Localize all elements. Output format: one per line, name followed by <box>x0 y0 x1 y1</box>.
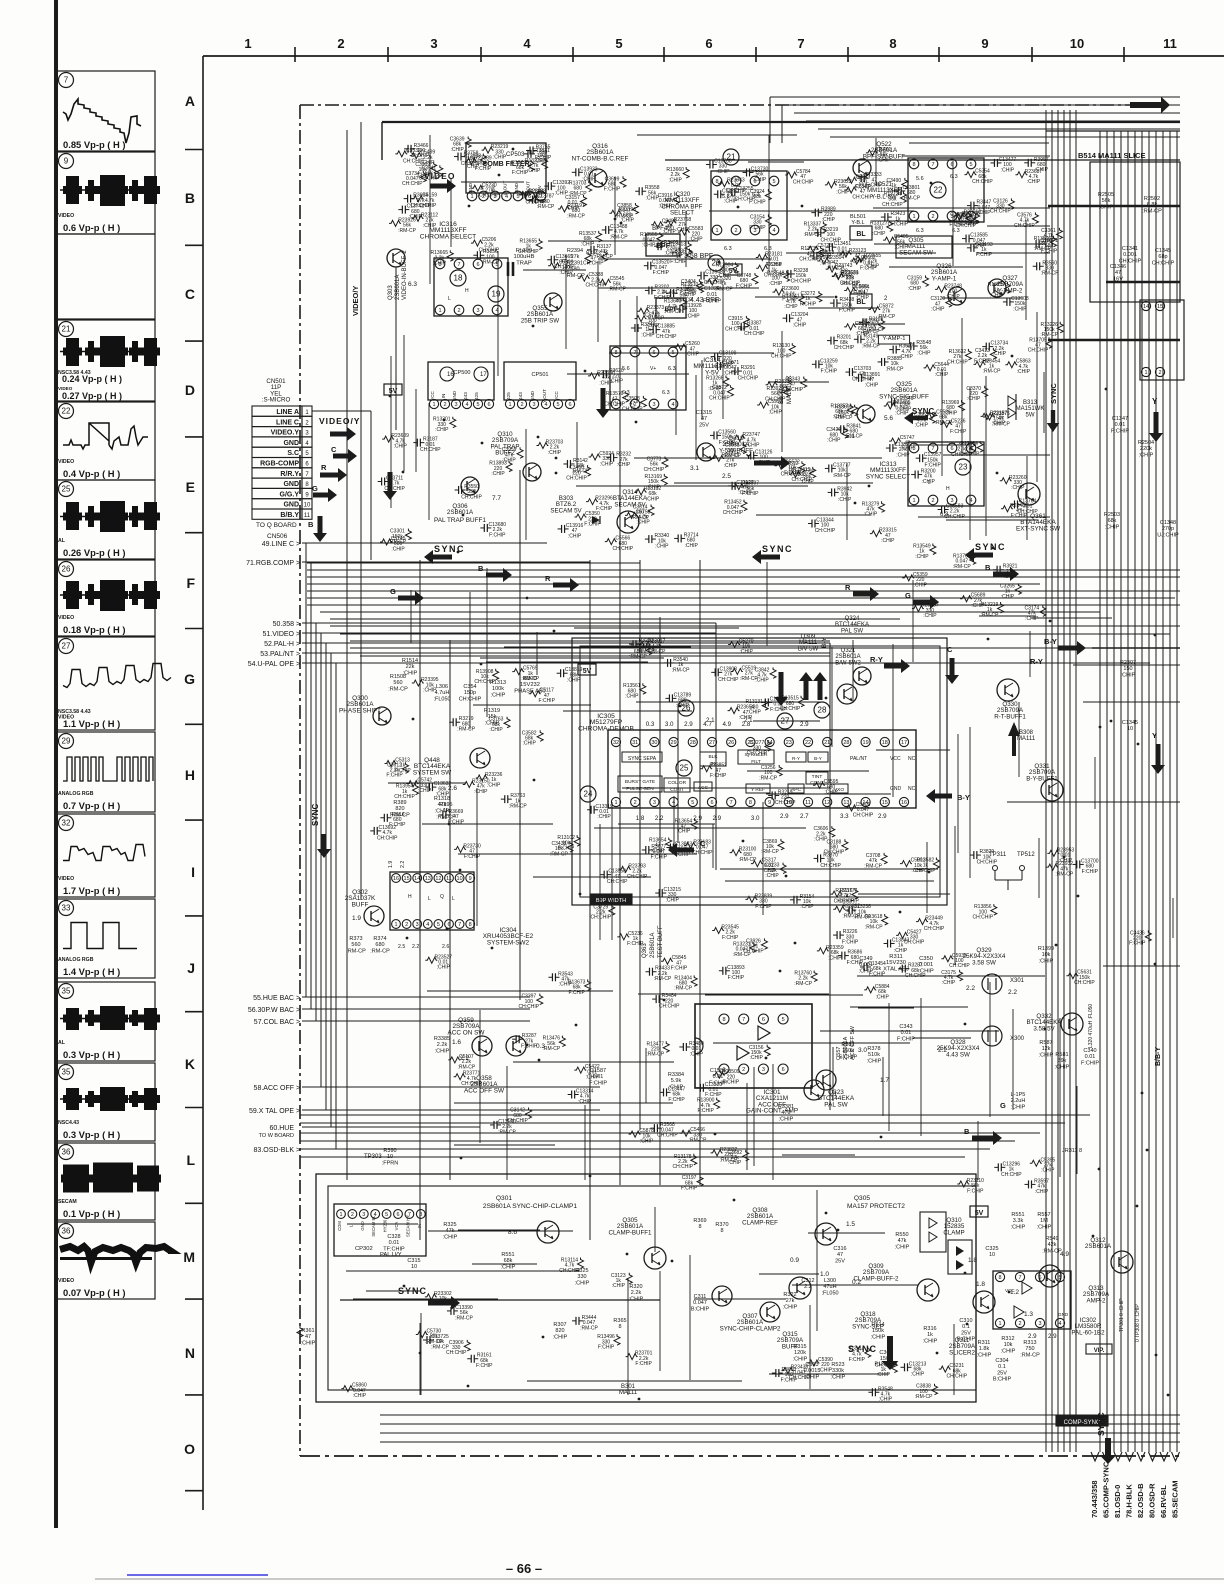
svg-text::CHIP: :CHIP <box>765 873 779 879</box>
svg-text::CHIP: :CHIP <box>757 460 771 466</box>
svg-text:3: 3 <box>430 36 437 51</box>
svg-text::CHIP: :CHIP <box>686 352 700 358</box>
svg-text:CLAMP-REF: CLAMP-REF <box>742 1219 778 1226</box>
svg-text:3: 3 <box>1038 1321 1041 1327</box>
dash-dot board border top <box>300 104 1164 106</box>
svg-text:Q303: Q303 <box>388 285 394 300</box>
svg-text:CH:CHIP: CH:CHIP <box>977 859 998 865</box>
svg-text:1.8k: 1.8k <box>979 1346 990 1352</box>
svg-text:10: 10 <box>411 1264 417 1270</box>
svg-text::CHIP: :CHIP <box>1041 1168 1055 1174</box>
svg-text:32: 32 <box>62 819 71 828</box>
svg-text:7: 7 <box>457 262 460 268</box>
svg-text:3: 3 <box>454 402 457 408</box>
svg-text::CHIP: :CHIP <box>1037 1224 1052 1230</box>
svg-text:0.18 Vp-p ( H ): 0.18 Vp-p ( H ) <box>63 624 126 635</box>
svg-text:CH:CHIP: CH:CHIP <box>1074 980 1095 986</box>
svg-text:R313: R313 <box>1023 1340 1036 1346</box>
svg-text::RM-CP: :RM-CP <box>827 265 845 271</box>
svg-text:RGB-COMP: RGB-COMP <box>260 461 299 468</box>
svg-text:BURST GATE: BURST GATE <box>625 779 655 785</box>
svg-text:BUFF: BUFF <box>352 901 369 908</box>
svg-text:GND: GND <box>890 786 902 792</box>
svg-text::CHIP: :CHIP <box>553 1334 568 1340</box>
svg-text:5.6: 5.6 <box>916 176 924 182</box>
svg-text:22: 22 <box>805 740 811 746</box>
svg-text:CH:CHIP: CH:CHIP <box>384 486 405 492</box>
svg-text:CH:CHIP: CH:CHIP <box>972 179 993 185</box>
svg-text:4.9: 4.9 <box>1060 1251 1069 1258</box>
svg-text::CHIP: :CHIP <box>865 382 879 388</box>
svg-text:8: 8 <box>998 1275 1001 1281</box>
svg-text:Y: Y <box>1152 397 1158 406</box>
svg-text:L: L <box>448 296 451 302</box>
svg-text:MA157 PROTECT2: MA157 PROTECT2 <box>847 1203 905 1210</box>
svg-text:CH:CHIP: CH:CHIP <box>718 677 739 683</box>
svg-text:SECAM 5V: SECAM 5V <box>550 507 582 514</box>
svg-text:F: F <box>186 575 195 591</box>
svg-text::CHIP: :CHIP <box>944 410 958 416</box>
svg-text:0.1 Vp-p ( H ): 0.1 Vp-p ( H ) <box>63 1208 120 1219</box>
svg-text:SYNC SELECT: SYNC SELECT <box>866 473 910 480</box>
svg-text::CHIP: :CHIP <box>784 304 798 310</box>
svg-text::CHIP: :CHIP <box>683 292 697 298</box>
svg-text:Y-B.L: Y-B.L <box>851 220 864 226</box>
svg-text:CP503: CP503 <box>506 152 525 158</box>
svg-text:CH:CHIP: CH:CHIP <box>764 273 785 279</box>
svg-text:443: 443 <box>463 392 468 400</box>
svg-text:C1315: C1315 <box>696 410 712 416</box>
svg-text:MA111: MA111 <box>1017 736 1036 742</box>
svg-text:Y-OUT: Y-OUT <box>542 389 547 403</box>
circled 20 <box>708 255 724 271</box>
svg-text:29: 29 <box>62 737 71 746</box>
svg-text:O: O <box>184 1441 195 1457</box>
svg-text::RM-CP: :RM-CP <box>370 948 390 954</box>
svg-text:12: 12 <box>435 876 441 882</box>
svg-text:5: 5 <box>969 162 972 168</box>
svg-text:R316: R316 <box>923 1326 936 1332</box>
svg-text:CH:CHIP: CH:CHIP <box>820 863 841 869</box>
svg-text:GND: GND <box>283 440 299 447</box>
svg-text:B/V 5W: B/V 5W <box>798 646 819 652</box>
svg-text:2: 2 <box>931 498 934 504</box>
svg-text:5W: 5W <box>1026 412 1035 418</box>
svg-text:2.2: 2.2 <box>966 985 975 992</box>
svg-text:R2503: R2503 <box>1104 512 1120 518</box>
svg-text:31: 31 <box>632 740 638 746</box>
svg-text:CH:CHIP: CH:CHIP <box>725 326 746 332</box>
svg-text::CHIP: :CHIP <box>876 994 890 1000</box>
svg-text::CHIP: :CHIP <box>718 273 732 279</box>
svg-text:220k: 220k <box>1140 446 1152 452</box>
svg-text:C: C <box>185 286 195 302</box>
top right horizontal bundle <box>770 96 1180 98</box>
svg-text:CH:CHIP: CH:CHIP <box>657 1133 678 1139</box>
svg-text:1.6: 1.6 <box>452 1039 461 1046</box>
waveform box 35 0.3 Vp-p ( H ) <box>57 1063 155 1141</box>
svg-text:6: 6 <box>762 1017 765 1023</box>
svg-text:F:CHIP: F:CHIP <box>1082 869 1099 875</box>
svg-text::CHIP: :CHIP <box>1001 167 1015 173</box>
svg-text::RM-CP: :RM-CP <box>654 976 672 982</box>
svg-text:7: 7 <box>1018 1275 1021 1281</box>
svg-text::CHIP: :CHIP <box>393 443 407 449</box>
svg-text:1.7 Vp-p ( H ): 1.7 Vp-p ( H ) <box>63 885 120 896</box>
svg-text:R-Y: R-Y <box>792 756 800 761</box>
svg-text:C343: C343 <box>899 1024 912 1030</box>
svg-text:X300: X300 <box>1010 1036 1025 1042</box>
svg-text:CH:CHIP: CH:CHIP <box>519 1004 540 1010</box>
svg-text:11: 11 <box>446 876 452 882</box>
svg-text::RM-CP: :RM-CP <box>509 804 527 810</box>
page left margin bar <box>54 0 58 1528</box>
svg-text:CH:CHIP: CH:CHIP <box>973 914 994 920</box>
svg-text:SYNC-CHIP-CLAMP2: SYNC-CHIP-CLAMP2 <box>720 1325 781 1332</box>
svg-text:TRAP: TRAP <box>516 260 532 266</box>
svg-text:VCC: VCC <box>430 390 435 400</box>
svg-text:NT-COMB-B.C.REF: NT-COMB-B.C.REF <box>572 155 629 162</box>
svg-text::RM-CP: :RM-CP <box>992 421 1010 427</box>
svg-text:0.1: 0.1 <box>962 1324 970 1330</box>
svg-text::CHIP: :CHIP <box>646 196 660 202</box>
svg-text:2.2: 2.2 <box>1008 989 1017 996</box>
svg-text:R320: R320 <box>629 1284 642 1290</box>
label B9P WIDTH boxed <box>590 894 632 904</box>
left vertical bus bundle <box>305 543 307 997</box>
xtal X301 <box>982 974 1002 994</box>
svg-text:2.9: 2.9 <box>878 813 887 820</box>
svg-text:H: H <box>465 288 469 294</box>
svg-text:R3385: R3385 <box>434 1036 450 1042</box>
svg-text:10: 10 <box>1127 726 1133 732</box>
svg-text:25V: 25V <box>699 422 709 428</box>
svg-text:F:CHIP: F:CHIP <box>651 854 668 860</box>
chroma section outer frame <box>572 638 947 905</box>
svg-text:L: L <box>186 1152 195 1168</box>
svg-text:CH:CHIP: CH:CHIP <box>888 221 909 227</box>
svg-text:R2502: R2502 <box>1144 196 1160 202</box>
svg-text:F:CHIP: F:CHIP <box>924 463 941 469</box>
svg-text:SYNC: SYNC <box>434 544 465 554</box>
svg-text:2.2k: 2.2k <box>437 1042 448 1048</box>
svg-text::CHIP: :CHIP <box>418 788 432 794</box>
svg-text:16: 16 <box>393 876 399 882</box>
svg-text:TP301 0 :CHIP: TP301 0 :CHIP <box>1119 1298 1125 1332</box>
svg-text::RM-CP: :RM-CP <box>672 667 690 673</box>
wire B down arrow <box>313 516 327 542</box>
waveform box 33 1.4 Vp-p ( H ) <box>57 899 155 978</box>
svg-text:B: B <box>185 190 195 206</box>
svg-text::CHIP: :CHIP <box>824 790 838 796</box>
circled 28 <box>814 702 830 718</box>
xtal X300 <box>982 1026 1002 1046</box>
svg-text::CHIP: :CHIP <box>838 497 852 503</box>
svg-text:21: 21 <box>824 740 830 746</box>
svg-text::CHIP: :CHIP <box>642 243 656 249</box>
svg-text:5: 5 <box>556 402 559 408</box>
svg-text:C315: C315 <box>407 1258 420 1264</box>
svg-text:>: > <box>296 541 300 548</box>
svg-text:C312: C312 <box>801 1278 814 1284</box>
svg-text:47: 47 <box>1115 270 1121 276</box>
svg-text:6: 6 <box>705 36 712 51</box>
svg-text:9: 9 <box>469 876 472 882</box>
svg-text:TP512: TP512 <box>1017 852 1035 858</box>
svg-text:28: 28 <box>818 706 827 715</box>
svg-text::CHIP: :CHIP <box>534 158 548 164</box>
svg-text:7: 7 <box>742 1017 745 1023</box>
top band frame verticals <box>769 97 771 143</box>
svg-text:56k: 56k <box>1102 198 1111 204</box>
svg-text:F:CHIP: F:CHIP <box>1041 248 1058 254</box>
svg-text:1: 1 <box>394 922 397 928</box>
svg-text:2: 2 <box>520 402 523 408</box>
svg-text:2.2: 2.2 <box>400 861 406 868</box>
svg-text:NC: NC <box>908 786 916 792</box>
svg-text:C316: C316 <box>833 1246 846 1252</box>
svg-text::FL050: :FL050 <box>433 696 450 702</box>
svg-text:G: G <box>184 671 195 687</box>
svg-text:C350: C350 <box>919 956 933 962</box>
transistor Q557 ACC OFF 5W <box>816 1070 836 1090</box>
svg-text:SLICER2: SLICER2 <box>949 1349 975 1356</box>
svg-text:80.OSD-R: 80.OSD-R <box>1148 1483 1157 1518</box>
svg-text:GND: GND <box>468 182 473 193</box>
svg-text:4: 4 <box>523 36 531 51</box>
svg-text:10: 10 <box>989 1252 995 1258</box>
svg-text::CHIP: :CHIP <box>914 582 928 588</box>
svg-text:COL OR: COL OR <box>668 780 687 786</box>
svg-text::RM-CP: :RM-CP <box>761 849 779 855</box>
svg-text:0.7 Vp-p ( H ): 0.7 Vp-p ( H ) <box>63 800 120 811</box>
svg-text:1.8: 1.8 <box>968 1257 977 1264</box>
svg-text:R2504: R2504 <box>1138 440 1154 446</box>
svg-text:6.3: 6.3 <box>724 246 732 252</box>
svg-text:CH:CHIP: CH:CHIP <box>853 812 874 818</box>
svg-text:3.0: 3.0 <box>665 721 674 728</box>
svg-text:19: 19 <box>863 740 869 746</box>
svg-text:7: 7 <box>458 922 461 928</box>
svg-text:2: 2 <box>742 1067 745 1073</box>
svg-text:52.PAL-H: 52.PAL-H <box>264 641 294 648</box>
svg-text:750: 750 <box>1025 1346 1034 1352</box>
svg-text:17: 17 <box>901 740 907 746</box>
svg-text::CHIP: :CHIP <box>1139 452 1154 458</box>
column ticks <box>294 47 296 62</box>
svg-text::RM-CP: :RM-CP <box>715 286 733 292</box>
svg-text:0.4 Vp-p ( H ): 0.4 Vp-p ( H ) <box>63 468 120 479</box>
svg-text:R1399: R1399 <box>1038 946 1054 952</box>
svg-text:65.COMP-SYNC: 65.COMP-SYNC <box>1102 1461 1111 1518</box>
svg-text:25V: 25V <box>835 1258 845 1264</box>
svg-text:F:CHIP: F:CHIP <box>489 532 506 538</box>
svg-text::CHIP: :CHIP <box>777 389 791 395</box>
svg-text::RM-CP: :RM-CP <box>794 981 812 987</box>
svg-text:SYSTEM SW: SYSTEM SW <box>413 769 452 776</box>
svg-text:3.3: 3.3 <box>840 813 849 820</box>
svg-text:SECAM HY: SECAM HY <box>405 1215 410 1237</box>
svg-text:CH:CHIP: CH:CHIP <box>526 199 547 205</box>
svg-text:CH:CHIP: CH:CHIP <box>882 202 903 208</box>
svg-text:1: 1 <box>715 228 718 234</box>
svg-text:F:CHIP: F:CHIP <box>1129 941 1146 947</box>
svg-text:CH:CHIP: CH:CHIP <box>743 949 764 955</box>
svg-text::CHIP: :CHIP <box>1013 306 1027 312</box>
svg-text::CHIP: :CHIP <box>575 1280 590 1286</box>
svg-text:Q301: Q301 <box>496 1195 512 1202</box>
svg-text:1.5: 1.5 <box>846 1221 855 1228</box>
svg-text:0.3 Vp-p ( H ): 0.3 Vp-p ( H ) <box>63 1129 120 1140</box>
svg-text:JR311 8: JR311 8 <box>1062 1148 1082 1154</box>
svg-text:CH:CHIP: CH:CHIP <box>1028 348 1049 354</box>
svg-text::CHIP: :CHIP <box>1027 179 1041 185</box>
svg-text:120k: 120k <box>794 1350 806 1356</box>
svg-text:F:CHIP: F:CHIP <box>671 966 688 972</box>
svg-text:28: 28 <box>843 740 849 746</box>
svg-text::CHIP: :CHIP <box>836 189 850 195</box>
svg-text:LINE A: LINE A <box>276 409 299 416</box>
svg-text:1.1 Vp-p ( H ): 1.1 Vp-p ( H ) <box>63 718 120 729</box>
thick right rail 1 <box>1048 205 1180 207</box>
svg-text:V+: V+ <box>650 366 656 372</box>
svg-text::RM-CP: :RM-CP <box>346 948 366 954</box>
svg-text:5: 5 <box>782 1017 785 1023</box>
svg-text:PULSE GEN: PULSE GEN <box>626 786 654 792</box>
svg-text:51.VIDEO: 51.VIDEO <box>262 631 294 638</box>
svg-text:G: G <box>905 591 911 600</box>
svg-text:F:CHIP: F:CHIP <box>842 939 859 945</box>
svg-text::CHIP: :CHIP <box>728 1160 742 1166</box>
svg-text:K: K <box>185 1056 195 1072</box>
waveform box 36 0.1 Vp-p ( H ) <box>57 1143 155 1220</box>
dash-dot board border left <box>299 105 301 1456</box>
svg-text:GND: GND <box>530 390 535 401</box>
svg-text:425: 425 <box>506 392 511 400</box>
ic right edge partial <box>1140 300 1184 380</box>
svg-text:L: L <box>452 896 455 902</box>
svg-text:C1341: C1341 <box>1122 246 1138 252</box>
svg-text::CHIP: :CHIP <box>501 1264 516 1270</box>
svg-text:R-Y: R-Y <box>870 655 883 664</box>
svg-text:0.01: 0.01 <box>389 1240 400 1246</box>
svg-text:0.01: 0.01 <box>707 292 718 298</box>
svg-text:2.9: 2.9 <box>684 721 693 728</box>
svg-text:2.2: 2.2 <box>655 815 664 822</box>
svg-text:5.9k: 5.9k <box>671 1078 682 1084</box>
svg-text:R550: R550 <box>895 1232 908 1238</box>
svg-text:IN: IN <box>417 1224 422 1228</box>
svg-text::CHIP: :CHIP <box>597 814 611 820</box>
svg-text:F:CHIP: F:CHIP <box>742 491 759 497</box>
svg-text:14: 14 <box>1143 304 1149 310</box>
svg-text:R361: R361 <box>301 1328 314 1334</box>
svg-text:66.RV-BL: 66.RV-BL <box>1159 1485 1168 1518</box>
svg-text:CLAMP: CLAMP <box>943 1229 964 1236</box>
svg-text:23: 23 <box>786 740 792 746</box>
svg-text::RM-CP: :RM-CP <box>1020 1352 1040 1358</box>
svg-text:>: > <box>296 1019 300 1026</box>
svg-text:1: 1 <box>912 214 915 220</box>
svg-text:C1346: C1346 <box>1110 264 1126 270</box>
svg-text::CHIP: :CHIP <box>436 792 450 798</box>
comb filter CP503 <box>466 143 546 193</box>
svg-text:G/G.Y: G/G.Y <box>280 491 300 498</box>
svg-text:R370: R370 <box>715 1222 728 1228</box>
svg-text:2.7: 2.7 <box>800 813 809 820</box>
svg-text:50.358: 50.358 <box>273 621 295 628</box>
svg-text:L320 470uH :FL050: L320 470uH :FL050 <box>1088 1004 1094 1048</box>
svg-text::CHIP: :CHIP <box>450 147 464 153</box>
transistor Q306 PAL TRAP BUFF1 <box>461 477 479 495</box>
svg-text:2.6: 2.6 <box>442 944 449 950</box>
svg-text:VIDEO: VIDEO <box>58 213 74 219</box>
svg-text:2.1: 2.1 <box>706 717 715 724</box>
svg-text:560: 560 <box>351 942 360 948</box>
row letter rail <box>202 56 204 1510</box>
svg-text:Q321: Q321 <box>841 648 856 654</box>
svg-text:F:CHIP: F:CHIP <box>670 259 687 265</box>
transistor Q330 R-T-BUFF1 <box>997 679 1019 701</box>
svg-text::CHIP: :CHIP <box>966 220 980 226</box>
svg-text:5V: 5V <box>389 388 398 395</box>
svg-text::CHIP: :CHIP <box>851 258 865 264</box>
svg-text:Y: Y <box>1152 731 1157 740</box>
svg-text:11: 11 <box>304 513 311 519</box>
svg-text:SYNC SEPA: SYNC SEPA <box>628 756 657 762</box>
svg-text:PAL-60-1B2: PAL-60-1B2 <box>1071 1329 1105 1336</box>
svg-text:B: B <box>308 520 314 529</box>
svg-text:– 66 –: – 66 – <box>506 1561 542 1576</box>
svg-text::CHIP: :CHIP <box>443 1234 458 1240</box>
svg-text:Y-AMP-1: Y-AMP-1 <box>883 336 906 342</box>
svg-text:B/B.Y: B/B.Y <box>280 512 299 519</box>
svg-text:CH:CHIP: CH:CHIP <box>924 926 945 932</box>
svg-text:6: 6 <box>487 402 490 408</box>
bus band rows E-F <box>307 562 640 564</box>
svg-text:R: R <box>545 574 551 583</box>
svg-text:C328: C328 <box>387 1234 400 1240</box>
svg-text:2.9: 2.9 <box>1048 1333 1057 1340</box>
svg-text:2.9: 2.9 <box>800 721 809 728</box>
svg-text::CHIP: :CHIP <box>917 350 931 356</box>
svg-text::CHIP: :CHIP <box>491 692 506 698</box>
svg-text:BL501: BL501 <box>850 214 866 220</box>
svg-text:F:CHIP: F:CHIP <box>697 1108 714 1114</box>
svg-text:Y-AMP-1: Y-AMP-1 <box>932 275 957 282</box>
svg-text:CH:CHIP: CH:CHIP <box>834 345 855 351</box>
svg-text::RM-CP: :RM-CP <box>740 676 758 682</box>
svg-text:CH:CHIP: CH:CHIP <box>656 334 677 340</box>
svg-text:CH:CHIP: CH:CHIP <box>793 179 814 185</box>
thick Y arrows <box>799 672 813 700</box>
svg-text:VIDEO: VIDEO <box>58 459 74 465</box>
thick right rail 3 <box>1048 339 1180 341</box>
svg-text:100k: 100k <box>492 686 504 692</box>
svg-text::CHIP: :CHIP <box>967 396 981 402</box>
svg-text:F:CHIP: F:CHIP <box>866 183 883 189</box>
svg-text:GND: GND <box>452 390 457 401</box>
connector CP302 <box>334 1204 426 1256</box>
svg-text:CH:CHIP: CH:CHIP <box>377 835 398 841</box>
svg-text::RM-CP: :RM-CP <box>865 924 883 930</box>
svg-text:4.7uH: 4.7uH <box>435 690 450 696</box>
wire video-y arrow <box>330 427 356 441</box>
svg-text:R378: R378 <box>867 1046 880 1052</box>
svg-text:9: 9 <box>768 800 771 806</box>
svg-text:0.24 Vp-p ( H ): 0.24 Vp-p ( H ) <box>62 374 122 384</box>
svg-text::CHIP: :CHIP <box>686 313 700 319</box>
